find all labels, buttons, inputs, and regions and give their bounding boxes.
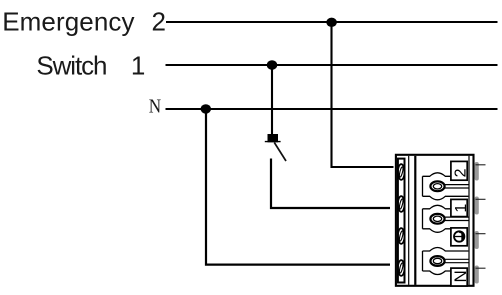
svg-text:2: 2 [453, 168, 470, 177]
svg-text:N: N [451, 270, 470, 282]
svg-text:N: N [149, 95, 161, 117]
svg-text:1: 1 [453, 204, 470, 213]
